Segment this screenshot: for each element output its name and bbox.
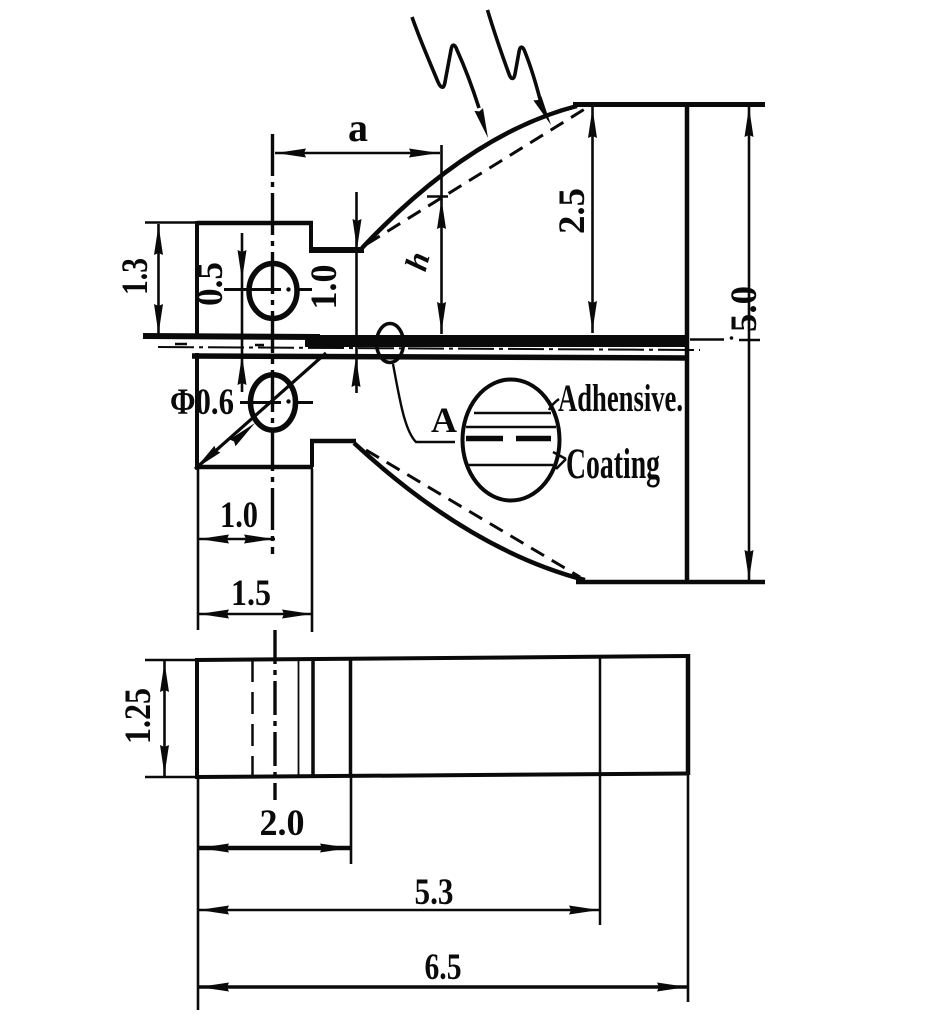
svg-text:5.0: 5.0 — [724, 286, 765, 332]
arrow 1.0 left — [199, 535, 229, 544]
wire bottom edge of side view — [576, 580, 765, 585]
wire lower flare dashed chord — [366, 450, 580, 577]
arrow 5.3 left — [199, 906, 229, 915]
wire flare start line bottom view — [349, 658, 353, 775]
arrow diagonal at hole edge — [230, 420, 258, 447]
wire vertical centerline of holes — [271, 134, 274, 554]
arrow 5.0 down — [745, 550, 754, 580]
arrow squiggle right — [533, 96, 555, 127]
wire lower hole horizontal centerline — [240, 401, 313, 404]
wire step surface — [309, 247, 364, 253]
wire 2.0 extension line — [350, 777, 353, 864]
arrow 0.5 down — [238, 250, 247, 280]
wire load squiggle left — [412, 17, 479, 108]
wire a/h right extension line — [440, 145, 443, 334]
wire 2.5 dimension line — [591, 107, 594, 333]
arrow 5.0 up — [745, 107, 754, 137]
wire step vertical — [309, 221, 313, 250]
wire leader from detail marker — [393, 364, 455, 442]
wire hole line thin — [298, 659, 300, 776]
wire upper flare solid curve — [362, 106, 577, 248]
wire bottom view top edge — [197, 656, 688, 660]
circle detail marker at bond line — [377, 324, 404, 363]
svg-text:Coating: Coating — [566, 441, 660, 488]
arrow a right — [409, 149, 439, 158]
svg-text:1.5: 1.5 — [231, 573, 271, 614]
wire lower step vertical — [310, 440, 314, 467]
wire right edge extension down — [687, 775, 690, 1002]
wire left edge extension down — [197, 779, 200, 1010]
wire 5.0 dimension line — [748, 106, 751, 581]
wire upper hole horizontal centerline — [224, 288, 312, 291]
svg-text:1.3: 1.3 — [115, 258, 156, 295]
arrow 6.5 right — [657, 983, 687, 992]
arrow h down — [437, 302, 446, 332]
svg-text:1.0: 1.0 — [304, 265, 345, 310]
arrow 0.5 up — [238, 355, 247, 385]
wire 0.5 dimension line — [241, 233, 244, 392]
wire bottom view top edge extension left — [145, 659, 197, 662]
svg-text:1.0: 1.0 — [220, 495, 258, 536]
circle lower hole — [251, 375, 296, 430]
svg-text:1.25: 1.25 — [118, 688, 159, 744]
arrow 1.25 down — [160, 745, 169, 775]
arrow h up — [437, 199, 446, 229]
wire adhesive centerline dash-dot — [158, 347, 700, 350]
arrow a left — [276, 149, 306, 158]
circle upper hole — [249, 264, 297, 319]
svg-text:2.5: 2.5 — [552, 188, 593, 234]
wire bottom view bottom edge extension left — [145, 776, 197, 779]
wire bottom view centerline — [273, 630, 276, 800]
arrow 2.0 right — [320, 844, 350, 853]
svg-text:A: A — [431, 400, 457, 440]
wire left edge extension below block — [197, 469, 200, 630]
wire detail inner line 2 — [466, 426, 556, 429]
svg-text:5.3: 5.3 — [415, 872, 454, 913]
arrow 2.5 up — [588, 108, 597, 138]
arrow squiggle left — [474, 108, 492, 139]
wire 1.0 dimension line — [198, 538, 275, 541]
wire 5.3 dimension line — [198, 909, 600, 912]
wire bond centerline extension to 5.0 dim — [690, 338, 760, 341]
wire bottom view bottom edge — [197, 774, 688, 778]
wire detail inner line 1 — [474, 412, 551, 415]
wire hidden hole line dashed — [251, 660, 254, 776]
wire bottom view right edge — [686, 654, 691, 775]
wire adhesive bond upper thick line — [143, 336, 320, 337]
svg-text:h: h — [397, 248, 436, 275]
wire step edge extension below block — [311, 469, 314, 632]
arrow 1.5 right — [282, 610, 312, 619]
svg-text:2.0: 2.0 — [260, 803, 305, 844]
wire bond lower thick line — [192, 356, 688, 358]
wire upper flare dashed chord — [367, 107, 588, 244]
svg-text:6.5: 6.5 — [425, 947, 462, 988]
wire step line bottom view — [311, 659, 315, 776]
wire a dimension line — [275, 152, 440, 155]
arrow 1.5 left — [199, 610, 229, 619]
wire lower step surface — [310, 439, 356, 444]
wire load squiggle right — [488, 10, 543, 107]
svg-text:Adhensive.: Adhensive. — [558, 377, 683, 420]
arrow 1.3 up — [154, 225, 163, 255]
arrow 1.3 down — [154, 304, 163, 334]
svg-text:0.5: 0.5 — [190, 262, 231, 306]
arrow 5.3 right — [569, 906, 599, 915]
wire top edge — [573, 102, 765, 107]
wire upper block top edge — [197, 221, 313, 226]
svg-text:Φ0.6: Φ0.6 — [170, 382, 234, 423]
arrow 1.0 step down — [353, 219, 362, 249]
wire h chord tick — [427, 195, 448, 198]
wire lower block bottom edge — [195, 465, 313, 470]
wire bond area noise ticks — [175, 344, 665, 345]
wire 2.0 dimension line — [198, 846, 351, 851]
wire upper block left edge — [195, 221, 199, 337]
circle detail view — [463, 380, 560, 501]
arrow 1.0 step up — [352, 357, 361, 387]
wire bottom view left edge — [195, 658, 199, 779]
wire detail thick dashed adhesive line — [466, 436, 551, 442]
wire 5.3 reference line — [599, 657, 602, 925]
wire lower block left edge — [195, 353, 199, 469]
wire leader tick Adhensive — [549, 399, 559, 410]
wire 1.5 dimension line — [198, 613, 313, 616]
wire 1.3 dimension line — [157, 224, 160, 336]
wire specimen right edge — [685, 102, 690, 584]
wire 1.25 dimension line — [163, 661, 166, 776]
arrow 6.5 left — [199, 983, 229, 992]
wire lower flare solid curve — [354, 443, 585, 580]
arrow 1.25 up — [160, 662, 169, 692]
arrow diagonal lower-left — [192, 446, 220, 473]
wire 1.3 top extension — [145, 221, 199, 224]
wire 6.5 dimension line — [198, 985, 688, 989]
wire diagonal leader through lower hole — [195, 353, 326, 469]
wire 1.0 step dimension line — [355, 192, 358, 393]
wire leader tick Coating — [553, 452, 566, 469]
wire detail inner line 3 — [468, 464, 553, 467]
arrow 2.5 down — [588, 301, 597, 331]
svg-text:a: a — [348, 105, 368, 150]
arrow 2.0 left — [199, 844, 229, 853]
arrow 1.0 right — [244, 535, 274, 544]
